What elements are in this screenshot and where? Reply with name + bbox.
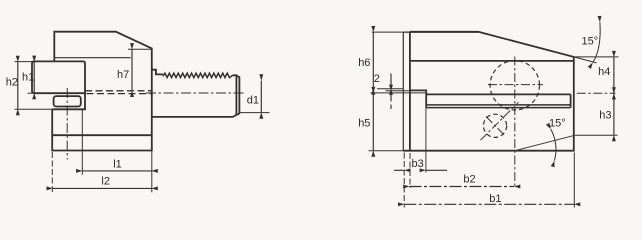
svg-text:l2: l2	[101, 175, 110, 187]
svg-text:h2: h2	[6, 77, 18, 89]
svg-text:15°: 15°	[549, 117, 566, 129]
svg-text:15°: 15°	[582, 35, 599, 47]
svg-text:h3: h3	[599, 110, 611, 122]
svg-text:h4: h4	[598, 66, 610, 78]
svg-text:b1: b1	[489, 193, 501, 205]
svg-text:h1: h1	[22, 71, 34, 83]
svg-text:l1: l1	[113, 159, 122, 171]
svg-text:2: 2	[374, 73, 380, 85]
svg-text:h5: h5	[358, 118, 370, 130]
svg-text:d1: d1	[247, 95, 259, 107]
svg-text:b2: b2	[463, 174, 475, 186]
svg-text:b3: b3	[412, 158, 424, 170]
svg-text:h6: h6	[358, 57, 370, 69]
svg-text:h7: h7	[117, 69, 129, 81]
